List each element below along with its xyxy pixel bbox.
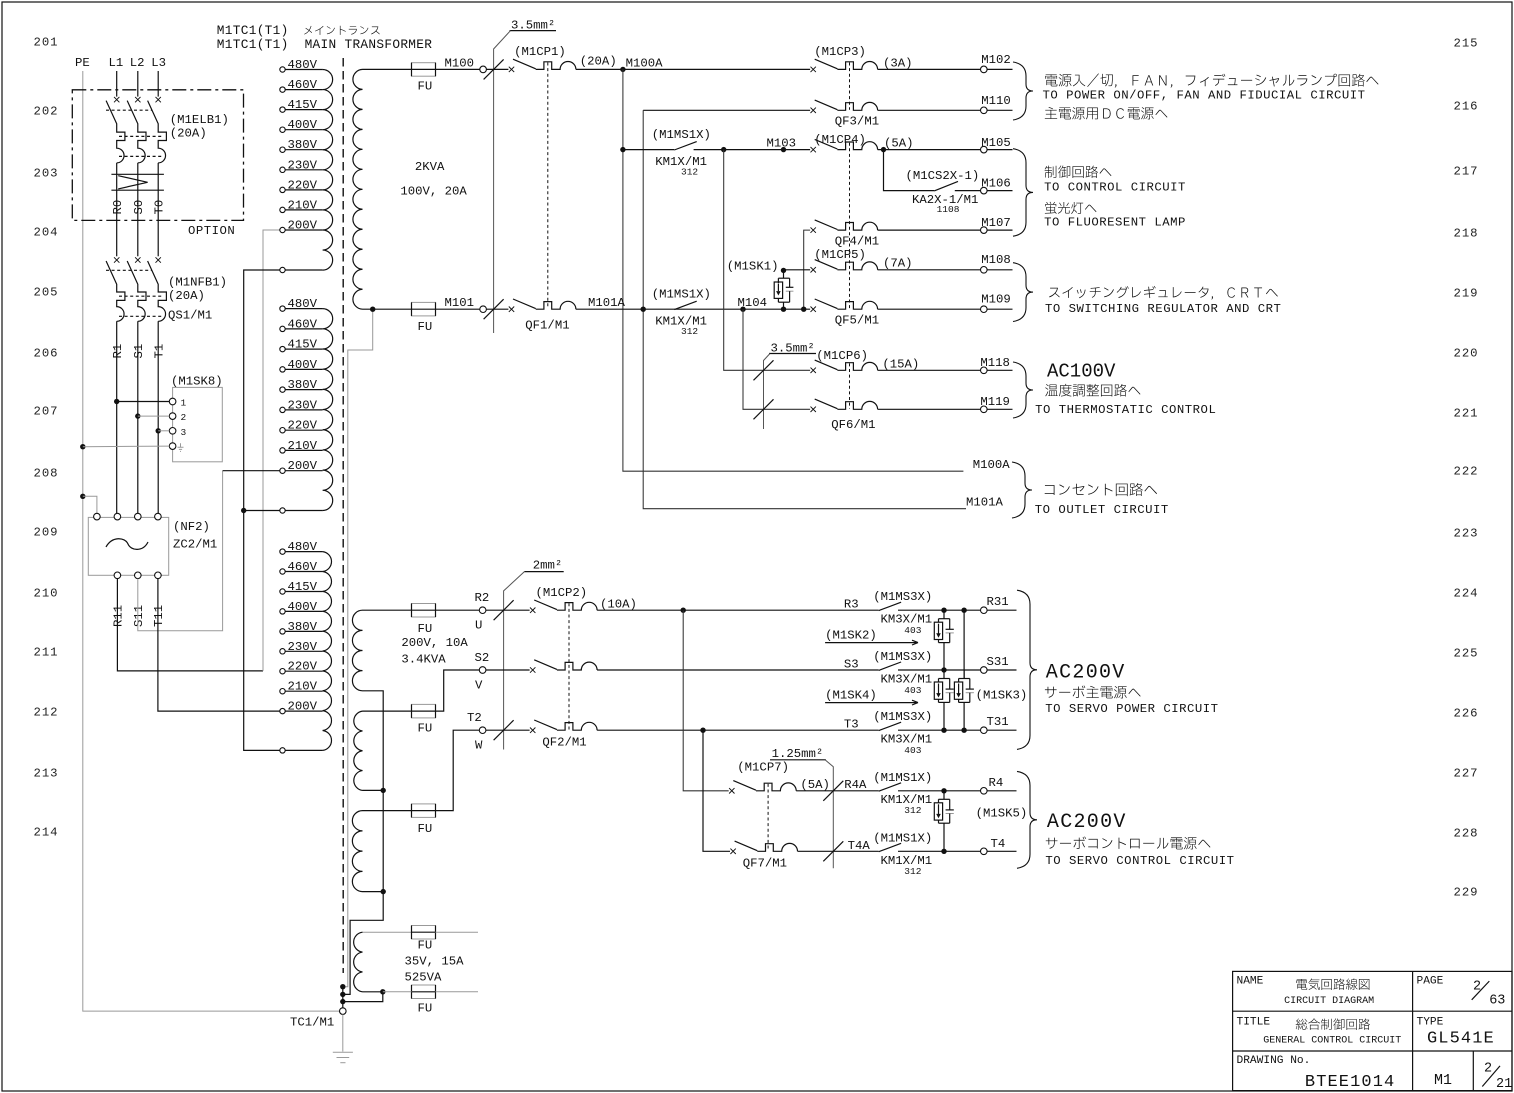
- svg-text:216: 216: [1454, 99, 1479, 113]
- group1 tap 400V: [280, 127, 285, 132]
- svg-text:M102: M102: [981, 53, 1011, 67]
- NF2 sine symbol: [106, 539, 148, 550]
- group3 tap 415V: [280, 589, 285, 594]
- svg-text:FU: FU: [418, 822, 433, 836]
- svg-text:209: 209: [34, 525, 59, 539]
- svg-text:S31: S31: [987, 655, 1009, 669]
- wire M108 row start: [781, 268, 786, 273]
- svg-text:219: 219: [1454, 286, 1479, 300]
- secondary winding 35V coil: [354, 932, 363, 992]
- svg-text:415V: 415V: [288, 98, 318, 112]
- wire M101 row from coil: [370, 307, 375, 312]
- group1 tap 210V: [280, 207, 285, 212]
- NF2 terminal T11 out: [155, 572, 162, 579]
- secondary winding servo W2 coil: [354, 711, 363, 790]
- wire PE to NF2: [80, 494, 85, 499]
- node TC1/M1 junction dots: [340, 984, 345, 989]
- svg-text:(M1SK2): (M1SK2): [825, 629, 877, 643]
- wire M101A vertical: [643, 110, 966, 508]
- group3 tap 480V: [280, 549, 285, 554]
- svg-text:21: 21: [1496, 1077, 1512, 1092]
- svg-text:AC100V: AC100V: [1047, 361, 1116, 383]
- svg-text:M119: M119: [980, 395, 1010, 409]
- svg-text:T31: T31: [987, 715, 1009, 729]
- annotation outlet circuit: [1045, 483, 1157, 496]
- svg-text:V: V: [475, 679, 483, 693]
- group3 tap 210V: [280, 689, 285, 694]
- breaker M1CP2 pole2: [530, 667, 535, 672]
- terminal M102: [981, 66, 988, 73]
- svg-text:M100: M100: [445, 57, 475, 71]
- svg-text:312: 312: [681, 167, 698, 178]
- svg-text:M118: M118: [980, 356, 1010, 370]
- svg-text:FU: FU: [418, 320, 433, 334]
- surge absorber M1SK3 symbol: [963, 610, 965, 678]
- terminal M100: [480, 66, 487, 73]
- svg-text:T1: T1: [152, 344, 166, 359]
- svg-text:TO CONTROL CIRCUIT: TO CONTROL CIRCUIT: [1044, 181, 1186, 195]
- breaker M1CP3 linkage: [849, 63, 851, 110]
- svg-text:200V, 10A: 200V, 10A: [401, 636, 468, 650]
- breaker M1ELB1 pole L3: [156, 97, 161, 102]
- svg-text:(M1CP6): (M1CP6): [816, 349, 868, 363]
- svg-text:220V: 220V: [288, 178, 318, 192]
- svg-text:T0: T0: [152, 200, 166, 215]
- svg-text:R2: R2: [475, 591, 490, 605]
- svg-text:(M1MS1X): (M1MS1X): [873, 832, 932, 846]
- svg-text:QF2/M1: QF2/M1: [542, 736, 586, 750]
- wire W3 row: [363, 810, 412, 812]
- svg-text:221: 221: [1454, 406, 1479, 420]
- wire T11 to group3 200V tap: [158, 579, 280, 712]
- svg-text:TO SERVO POWER CIRCUIT: TO SERVO POWER CIRCUIT: [1045, 702, 1218, 716]
- wire R1 to M1SK8-1: [114, 399, 119, 404]
- svg-text:(M1SK3): (M1SK3): [976, 689, 1028, 703]
- primary winding group3 coil: [323, 552, 332, 751]
- wire M101 to breaker: [486, 308, 508, 310]
- surge absorber M1SK8 box: [173, 387, 223, 461]
- svg-text:S2: S2: [475, 651, 490, 665]
- svg-text:213: 213: [34, 766, 59, 780]
- NF2 terminal R11 out: [114, 572, 121, 579]
- breaker M1ELB1 earth-leakage sensor: [111, 173, 163, 175]
- svg-text:525VA: 525VA: [405, 971, 443, 985]
- NF2 terminal L3 in: [155, 513, 162, 520]
- svg-text:R1: R1: [111, 344, 125, 359]
- svg-text:226: 226: [1454, 706, 1479, 720]
- svg-text:415V: 415V: [288, 338, 318, 352]
- breaker M1NFB1 pole R1: [114, 257, 119, 262]
- svg-text:460V: 460V: [288, 317, 318, 331]
- svg-text:201: 201: [34, 35, 59, 49]
- svg-text:229: 229: [1454, 885, 1479, 899]
- svg-text:200V: 200V: [288, 700, 318, 714]
- svg-text:FU: FU: [418, 1002, 433, 1016]
- fuse FU S2: [412, 704, 436, 718]
- svg-text:R0: R0: [111, 200, 125, 215]
- svg-text:3.4KVA: 3.4KVA: [401, 653, 446, 667]
- breaker M1CP2 pole3 QF2: [530, 728, 535, 733]
- wire SK2 bottom to S3: [943, 643, 945, 670]
- svg-text:TO FLUORESENT LAMP: TO FLUORESENT LAMP: [1044, 216, 1186, 230]
- svg-text:M106: M106: [981, 177, 1011, 191]
- contactor contact M1MS1X row T4: [879, 843, 901, 851]
- breaker M1CP3 pole1: [811, 67, 816, 72]
- annotation switching regulator: [1049, 286, 1278, 300]
- wire M100A vertical: [623, 69, 964, 471]
- svg-text:PAGE: PAGE: [1417, 976, 1444, 988]
- svg-text:222: 222: [1454, 464, 1479, 478]
- group2 tap 415V: [280, 346, 285, 351]
- terminal M109: [981, 306, 988, 313]
- svg-text:S1: S1: [132, 344, 146, 359]
- svg-text:(M1CS2X-1): (M1CS2X-1): [906, 169, 980, 183]
- svg-text:100V, 20A: 100V, 20A: [400, 185, 467, 199]
- wire S2 to breaker: [486, 669, 530, 671]
- contactor contact M1MS3X row S3: [879, 662, 901, 670]
- terminal M119: [981, 406, 988, 413]
- svg-text:QS1/M1: QS1/M1: [168, 309, 212, 323]
- wire S1 to M1SK8-2: [135, 413, 140, 418]
- svg-text:208: 208: [34, 466, 59, 480]
- svg-text:(NF2): (NF2): [173, 520, 210, 534]
- svg-text:(M1SK1): (M1SK1): [727, 260, 779, 274]
- svg-text:2mm²: 2mm²: [533, 559, 563, 573]
- svg-text:TC1/M1: TC1/M1: [290, 1016, 334, 1030]
- svg-text:312: 312: [904, 866, 921, 877]
- breaker M1CP5 pole1: [811, 267, 816, 272]
- svg-text:210V: 210V: [288, 439, 318, 453]
- M1SK8 terminal earth: [169, 443, 176, 450]
- svg-text:(5A): (5A): [884, 137, 914, 151]
- svg-text:CIRCUIT DIAGRAM: CIRCUIT DIAGRAM: [1284, 996, 1374, 1007]
- fuse FU M100: [412, 63, 436, 76]
- svg-text:480V: 480V: [288, 58, 318, 72]
- svg-text:(M1MS3X): (M1MS3X): [873, 590, 932, 604]
- svg-text:FU: FU: [418, 622, 433, 636]
- terminal T31: [981, 727, 988, 734]
- svg-text:QF7/M1: QF7/M1: [743, 857, 787, 871]
- svg-text:(M1NFB1): (M1NFB1): [168, 276, 227, 290]
- svg-text:220V: 220V: [288, 419, 318, 433]
- terminal S31: [981, 667, 988, 674]
- svg-text:480V: 480V: [288, 540, 318, 554]
- svg-text:QF1/M1: QF1/M1: [525, 319, 569, 333]
- svg-text:(M1CP7): (M1CP7): [737, 761, 789, 775]
- group1 tap 460V: [280, 87, 285, 92]
- svg-text:210: 210: [34, 586, 59, 600]
- svg-text:(15A): (15A): [882, 358, 919, 372]
- svg-text:M109: M109: [981, 293, 1011, 307]
- svg-text:M101: M101: [445, 296, 475, 310]
- svg-text:TO SWITCHING REGULATOR AND CRT: TO SWITCHING REGULATOR AND CRT: [1045, 302, 1281, 316]
- node KM1X branch AC100V: [721, 147, 726, 152]
- terminal M105: [981, 146, 988, 153]
- svg-text:2KVA: 2KVA: [415, 160, 445, 174]
- svg-text:DRAWING No.: DRAWING No.: [1237, 1055, 1311, 1067]
- nodes on T3 row: [941, 728, 946, 733]
- wire S2 step from fuse: [436, 670, 480, 711]
- svg-text:M100A: M100A: [626, 57, 664, 71]
- contactor contact M1MS3X row R3: [879, 602, 901, 610]
- annotation control circuit: [1045, 166, 1112, 179]
- svg-text:205: 205: [34, 285, 59, 299]
- svg-text:FU: FU: [418, 80, 433, 94]
- svg-text:206: 206: [34, 346, 59, 360]
- svg-text:R11: R11: [112, 605, 126, 627]
- breaker M1CP7 pole2 QF7: [730, 849, 735, 854]
- svg-text:(M1CP4): (M1CP4): [814, 133, 866, 147]
- wire KA2X branch: [884, 150, 935, 191]
- svg-text:460V: 460V: [288, 560, 318, 574]
- breaker M1CP4 pole1: [811, 147, 816, 152]
- svg-text:ZC2/M1: ZC2/M1: [173, 538, 217, 552]
- title block frame: [1233, 971, 1512, 1090]
- group3 tap 460V: [280, 569, 285, 574]
- node R2A branch: [681, 608, 686, 613]
- svg-text:S0: S0: [132, 200, 146, 215]
- svg-text:35V, 15A: 35V, 15A: [405, 955, 465, 969]
- svg-text:PE: PE: [75, 56, 90, 70]
- svg-text:210V: 210V: [288, 680, 318, 694]
- breaker M1ELB1 pole L1: [114, 97, 119, 102]
- svg-text:S11: S11: [132, 605, 146, 627]
- node on R4 row: [941, 788, 946, 793]
- svg-text:FU: FU: [418, 939, 433, 953]
- terminal R4: [981, 788, 988, 795]
- svg-text:QF4/M1: QF4/M1: [835, 235, 879, 249]
- svg-text:415V: 415V: [288, 580, 318, 594]
- svg-text:TITLE: TITLE: [1237, 1017, 1271, 1029]
- wire T2 step from fuse: [436, 730, 480, 810]
- svg-text:(M1MS3X): (M1MS3X): [873, 650, 932, 664]
- right line numbers 215-229: [1454, 36, 1479, 899]
- wire 35V top row: [363, 931, 412, 933]
- surge absorber M1SK4 symbol: [943, 670, 945, 679]
- primary winding group2 coil: [323, 309, 333, 511]
- breaker M1CP1 pole1: [509, 67, 514, 72]
- wire PE bus: [83, 71, 340, 1011]
- breaker M1CP1 linkage: [547, 63, 549, 309]
- wire R2A to M1CP7: [683, 610, 729, 791]
- wire M100 row from coil: [363, 68, 412, 70]
- svg-text:(10A): (10A): [600, 598, 637, 612]
- group3 tap 230V: [280, 649, 285, 654]
- primary winding group1 extra tap: [280, 267, 285, 272]
- wire common tap bus (extra taps): [244, 270, 280, 750]
- svg-text:OPTION: OPTION: [188, 224, 235, 238]
- node T2A branch: [700, 728, 705, 733]
- node M105 branch KA2X: [881, 147, 886, 152]
- svg-text:224: 224: [1454, 586, 1479, 600]
- group3 tap 200V: [280, 708, 285, 713]
- svg-text:(M1MS1X): (M1MS1X): [873, 771, 932, 785]
- breaker M1CP3 pole2 QF3: [811, 108, 816, 113]
- group2 tap 480V: [280, 306, 285, 311]
- breaker M1CP2 pole1: [530, 608, 535, 613]
- wire servo neutral down: [343, 691, 383, 995]
- breaker M1CP7 linkage: [767, 784, 769, 851]
- terminal T2: [479, 727, 486, 734]
- secondary winding 100V coil: [353, 69, 363, 309]
- svg-text:(M1SK5): (M1SK5): [976, 807, 1028, 821]
- wire W3 bottom to neutral: [381, 889, 386, 894]
- svg-text:NAME: NAME: [1237, 976, 1264, 988]
- svg-text:M107: M107: [981, 216, 1011, 230]
- terminal T4: [981, 848, 988, 855]
- wire L1 drop: [116, 71, 118, 97]
- contactor contact M1MS1X (KM1X/M1) row M104: [674, 301, 696, 309]
- svg-text:(20A): (20A): [170, 127, 207, 141]
- svg-text:(7A): (7A): [883, 257, 913, 271]
- svg-text:(M1CP5): (M1CP5): [814, 248, 866, 262]
- terminal M118: [981, 367, 988, 374]
- svg-text:(M1MS1X): (M1MS1X): [652, 288, 711, 302]
- svg-text:207: 207: [34, 404, 59, 418]
- svg-text:AC200V: AC200V: [1046, 662, 1126, 685]
- svg-text:T4: T4: [991, 837, 1006, 851]
- annotation power on/off circuit: [1045, 74, 1378, 88]
- brace M100A/M101A group: [1012, 462, 1032, 518]
- svg-text:200V: 200V: [288, 219, 318, 233]
- wire M101 neutral to core bottom (gray): [343, 309, 373, 987]
- svg-text:S3: S3: [844, 658, 859, 672]
- svg-text:M100A: M100A: [973, 458, 1011, 472]
- svg-text:(M1SK4): (M1SK4): [825, 689, 877, 703]
- svg-text:QF3/M1: QF3/M1: [835, 115, 879, 129]
- group1 tap 230V: [280, 167, 285, 172]
- svg-text:M105: M105: [981, 136, 1011, 150]
- transformer core (dashed): [342, 58, 344, 973]
- svg-text:1: 1: [181, 398, 187, 409]
- breaker M1ELB1 linkage: [106, 110, 162, 156]
- svg-text:L3: L3: [151, 56, 166, 70]
- svg-text:400V: 400V: [288, 600, 318, 614]
- svg-text:204: 204: [34, 225, 59, 239]
- svg-text:GENERAL CONTROL CIRCUIT: GENERAL CONTROL CIRCUIT: [1263, 1036, 1401, 1047]
- svg-text:403: 403: [904, 685, 921, 696]
- svg-text:QF5/M1: QF5/M1: [835, 314, 879, 328]
- svg-text:TO OUTLET CIRCUIT: TO OUTLET CIRCUIT: [1035, 503, 1169, 517]
- wire 35V bottom: [380, 989, 385, 994]
- breaker M1NFB1 pole T1: [156, 257, 161, 262]
- surge absorber M1SK5 symbol: [943, 791, 945, 800]
- wire R11 to group1 200V tap: [117, 579, 263, 671]
- svg-text:230V: 230V: [288, 158, 318, 172]
- terminal TC1/M1: [340, 1008, 347, 1015]
- svg-text:(M1CP3): (M1CP3): [814, 45, 866, 59]
- group1 tap 380V: [280, 147, 285, 152]
- svg-text:M1TC1(T1): M1TC1(T1): [217, 23, 289, 38]
- brace servo power group: [1017, 590, 1037, 749]
- M1SK8 terminal 1: [169, 398, 176, 405]
- svg-text:(20A): (20A): [580, 55, 617, 69]
- wire W2 bottom to neutral: [381, 788, 386, 793]
- svg-text:2: 2: [1484, 1062, 1492, 1077]
- terminal R31: [981, 607, 988, 614]
- primary winding group1 coil: [323, 70, 333, 271]
- wire L3 drop: [157, 71, 159, 97]
- noise filter NF2 box: [88, 517, 168, 575]
- svg-text:R4: R4: [989, 776, 1004, 790]
- breaker M1ELB1 pole L2: [135, 97, 140, 102]
- svg-text:223: 223: [1454, 526, 1479, 540]
- svg-text:214: 214: [34, 825, 59, 839]
- M1SK8 terminal 3: [169, 428, 176, 435]
- svg-text:(M1CP2): (M1CP2): [536, 586, 588, 600]
- nodes on R3 row: [941, 608, 946, 613]
- svg-text:FU: FU: [418, 722, 433, 736]
- svg-text:211: 211: [34, 645, 59, 659]
- svg-text:380V: 380V: [288, 138, 318, 152]
- group1 tap 415V: [280, 107, 285, 112]
- brace servo control group: [1017, 771, 1037, 868]
- brace M118/M119 group: [1013, 362, 1033, 418]
- wire QF4 feed from M104: [804, 230, 810, 309]
- svg-text:R4A: R4A: [844, 778, 867, 792]
- wire T1 to M1SK8-3: [156, 428, 161, 433]
- svg-text:228: 228: [1454, 826, 1479, 840]
- wire T2 to breaker: [486, 729, 530, 731]
- group1 tap 480V: [280, 67, 285, 72]
- svg-text:225: 225: [1454, 646, 1479, 660]
- secondary winding servo W1 coil: [352, 610, 362, 691]
- OPTION dash-dot enclosure: [72, 90, 243, 221]
- group2 tap 210V: [280, 448, 285, 453]
- svg-text:312: 312: [904, 805, 921, 816]
- NF2 terminal S11 out: [135, 572, 142, 579]
- svg-text:312: 312: [681, 326, 698, 337]
- wire W2 fuse step to T2? (fuse at 711 handled): [363, 710, 412, 712]
- breaker M1CP6 linkage: [849, 363, 851, 408]
- node on T4 row: [941, 849, 946, 854]
- breaker M1CP5 pole2 QF5: [811, 307, 816, 312]
- svg-text:M1: M1: [1434, 1072, 1452, 1089]
- svg-text:400V: 400V: [288, 118, 318, 132]
- svg-text:380V: 380V: [288, 620, 318, 634]
- group2 tap 460V: [280, 326, 285, 331]
- svg-text:TO THERMOSTATIC CONTROL: TO THERMOSTATIC CONTROL: [1035, 403, 1216, 417]
- svg-text:(20A): (20A): [168, 289, 205, 303]
- svg-text:U: U: [475, 619, 482, 633]
- svg-text:R31: R31: [987, 595, 1009, 609]
- wire KM1X branch to M1CP6: [724, 150, 810, 371]
- breaker M1CP6 pole1: [811, 368, 816, 373]
- breaker M1CP6 pole2 QF6: [811, 407, 816, 412]
- svg-text:202: 202: [34, 104, 59, 118]
- svg-text:63: 63: [1489, 994, 1505, 1009]
- svg-text:L2: L2: [130, 56, 145, 70]
- group3 tap 220V: [280, 669, 285, 674]
- wire L2 drop: [137, 71, 139, 97]
- svg-text:400V: 400V: [288, 358, 318, 372]
- group3 tap 380V: [280, 629, 285, 634]
- group2 tap 220V: [280, 428, 285, 433]
- svg-text:M110: M110: [981, 94, 1011, 108]
- svg-text:TO SERVO CONTROL CIRCUIT: TO SERVO CONTROL CIRCUIT: [1045, 854, 1234, 868]
- group3 tap 400V: [280, 609, 285, 614]
- svg-text:203: 203: [34, 166, 59, 180]
- svg-text:218: 218: [1454, 226, 1479, 240]
- svg-text:2: 2: [1473, 980, 1481, 995]
- terminal R2: [479, 607, 486, 614]
- svg-text:(M1SK8): (M1SK8): [171, 375, 223, 389]
- surge absorber M1SK2 symbol: [943, 610, 945, 619]
- wire M100 to breaker: [486, 68, 508, 70]
- wire M103 row start: [620, 147, 625, 152]
- node M1SK1 branch: [781, 147, 786, 152]
- svg-text:217: 217: [1454, 164, 1479, 178]
